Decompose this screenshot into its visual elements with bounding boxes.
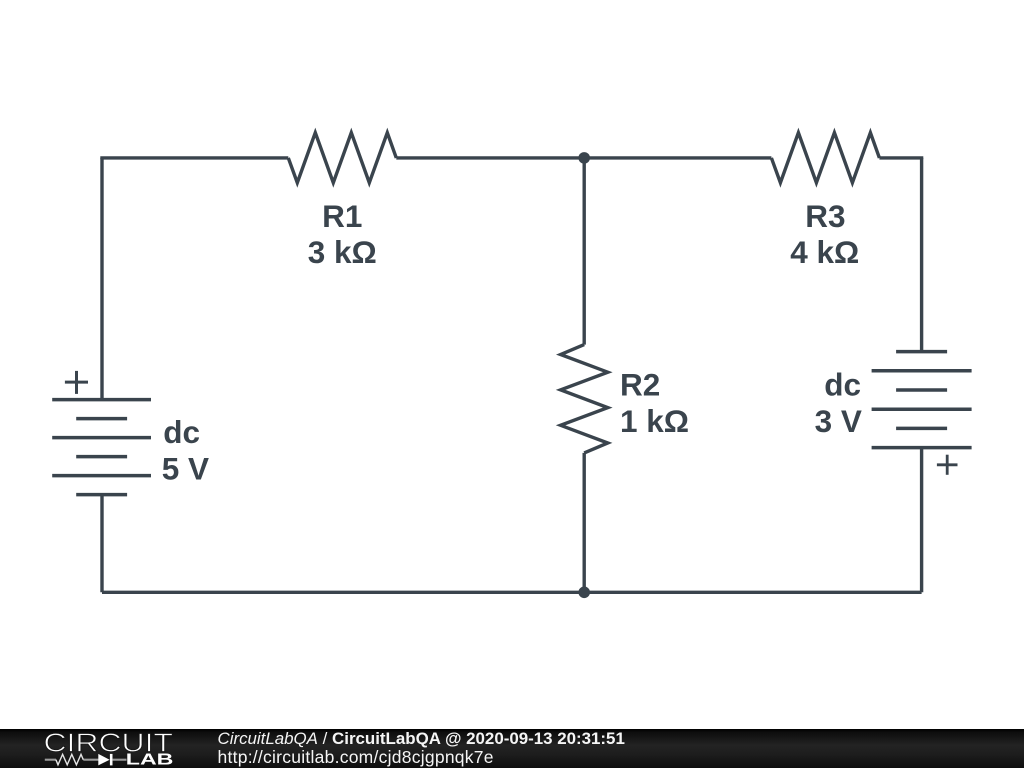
battery V1 (dc 5 V source) xyxy=(52,400,151,495)
svg-text:5 V: 5 V xyxy=(162,450,209,486)
footer watermark bar xyxy=(0,729,1024,768)
resistor R2 xyxy=(561,345,608,453)
V2 plate short (negative, pin -) xyxy=(896,350,947,354)
svg-text:1 kΩ: 1 kΩ xyxy=(620,403,689,439)
wire right vertical (V2 bottom to bottom wire) xyxy=(920,448,923,593)
svg-text:R2: R2 xyxy=(620,366,660,402)
wire R1 right to R3 left through node A xyxy=(396,156,771,159)
wire right vertical (top corner to V2) xyxy=(920,158,923,352)
resistor R3 xyxy=(771,133,879,183)
wire top-left (V1 top to R1 left) xyxy=(102,158,288,159)
V2 plate short xyxy=(896,427,947,431)
resistor R1 xyxy=(288,133,396,183)
logo wire lead-in xyxy=(45,759,127,761)
logo diode triangle xyxy=(98,754,109,766)
svg-text:3 V: 3 V xyxy=(815,403,862,439)
V1 plate long (positive, pin +) xyxy=(52,398,151,402)
svg-text:3 kΩ: 3 kΩ xyxy=(308,234,377,270)
wire left vertical (V1 bottom to bottom wire) xyxy=(100,495,103,593)
V1 plate long xyxy=(52,436,151,440)
battery V2 plus sign xyxy=(937,455,958,475)
wire bottom (full width) xyxy=(102,591,922,594)
V1 plate short xyxy=(76,417,127,421)
V1 plate long xyxy=(52,474,151,478)
wire middle vertical (R2 bottom to node B) xyxy=(583,453,586,592)
svg-text:R3: R3 xyxy=(805,198,845,234)
node A (top junction dot) xyxy=(578,152,590,164)
svg-text:R1: R1 xyxy=(322,198,362,234)
wire R3 right to right corner xyxy=(879,158,921,159)
svg-text:4 kΩ: 4 kΩ xyxy=(790,234,859,270)
node B (bottom junction dot) xyxy=(578,587,590,599)
svg-text:CircuitLabQA / CircuitLabQA @: CircuitLabQA / CircuitLabQA @ 2020-09-13… xyxy=(218,729,625,748)
svg-text:dc: dc xyxy=(163,414,200,450)
logo diode cathode bar xyxy=(110,754,113,766)
battery V2 (dc 3 V source) xyxy=(872,352,972,448)
svg-text:http://circuitlab.com/cjd8cjgp: http://circuitlab.com/cjd8cjgpnqk7e xyxy=(218,747,494,767)
V2 plate long (positive, pin +) xyxy=(872,446,972,450)
wire middle vertical (node A to R2 top) xyxy=(583,158,586,345)
svg-text:dc: dc xyxy=(824,366,861,402)
svg-text:LAB: LAB xyxy=(126,752,174,768)
V2 plate long xyxy=(872,407,972,411)
V2 plate short xyxy=(896,388,947,392)
V1 plate short (negative, pin -) xyxy=(76,493,127,497)
logo resistor zigzag xyxy=(56,754,83,764)
battery V1 plus sign xyxy=(65,371,88,394)
V2 plate long xyxy=(872,369,972,373)
V1 plate short xyxy=(76,455,127,459)
wire left vertical (top corner to V1) xyxy=(100,158,103,400)
